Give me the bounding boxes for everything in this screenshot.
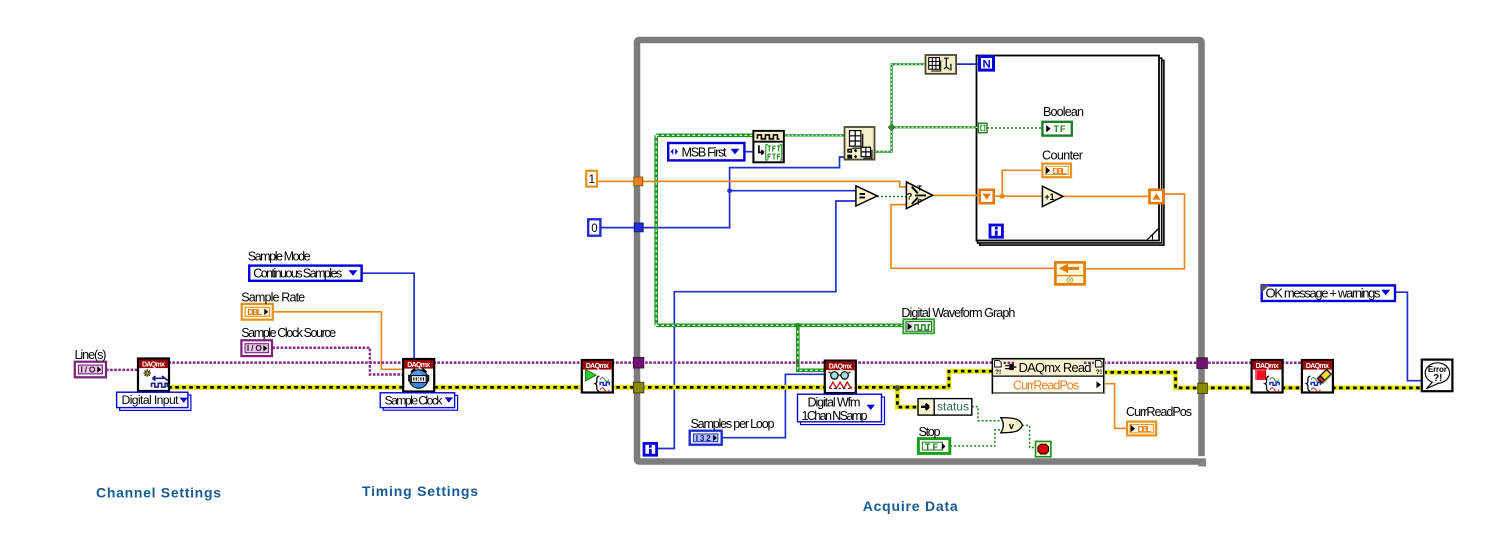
dropdown Digital Input	[117, 392, 191, 410]
dropdown Sample Clock	[380, 393, 457, 410]
svg-text:TF: TF	[1054, 124, 1066, 134]
svg-text:Digital Input: Digital Input	[122, 393, 180, 407]
wire while-i to equals lower input	[658, 201, 856, 449]
wire I32 to DAQmx read	[722, 374, 826, 437]
tunnel purple left	[633, 357, 643, 368]
svg-text:?: ?	[907, 191, 913, 202]
CurrReadPos DBL indicator	[1127, 422, 1156, 436]
wire equals to select	[877, 196, 906, 198]
page curl on for loop	[1148, 229, 1159, 240]
svg-text:DBL: DBL	[247, 307, 262, 317]
wire tunnel to Boolean TF	[987, 127, 1042, 129]
tunnel olive right	[1198, 383, 1208, 393]
page glyph left	[995, 361, 1002, 376]
wire sample clock source	[272, 348, 404, 375]
digital to boolean array icon	[753, 131, 783, 162]
wire sample mode blue	[362, 273, 415, 360]
svg-text:Digital Waveform Graph: Digital Waveform Graph	[901, 306, 1015, 320]
svg-text:Sample Rate: Sample Rate	[241, 291, 305, 305]
dropdown MSB First	[668, 143, 744, 160]
DAQmx Stop node	[1252, 360, 1283, 393]
loop condition stop sign	[1036, 441, 1051, 456]
terminal Sample Clock Source I/O	[241, 340, 272, 356]
junction 0-wire	[727, 188, 732, 193]
plug glyph	[1005, 364, 1016, 370]
svg-text:I32: I32	[696, 433, 711, 443]
wire diamond to for tunnel	[892, 126, 979, 128]
svg-text:DAQmx Read: DAQmx Read	[1019, 360, 1092, 375]
wire task main 3	[612, 361, 640, 364]
wire status to OR	[972, 407, 1001, 421]
svg-text:Sample Mode: Sample Mode	[248, 250, 311, 264]
svg-text:0: 0	[591, 223, 597, 235]
wire task main inside loop	[641, 361, 992, 364]
green dotted boolean wires	[877, 128, 1042, 448]
wire 0-constant to equals	[601, 191, 856, 228]
wire CurrReadPos to DBL	[1105, 384, 1128, 429]
purple dashes inside property node	[1004, 362, 1095, 364]
svg-text:Line(s): Line(s)	[75, 348, 107, 362]
junction diamond	[888, 124, 895, 131]
purple task wires	[106, 348, 1302, 375]
wire junction down to read vi	[798, 325, 826, 370]
svg-text:+1: +1	[1044, 192, 1054, 202]
svg-text:Counter: Counter	[1042, 149, 1083, 163]
unbundle status node	[918, 399, 972, 416]
junction counter wire	[1000, 194, 1005, 199]
green thick digital waveform wire	[656, 135, 904, 370]
wire right SR down to feedback node	[1085, 194, 1185, 269]
tunnel boolean array []	[978, 123, 987, 133]
dropdown Digital Wfm 1Chan NSamp	[798, 394, 885, 424]
svg-text:Timing Settings: Timing Settings	[362, 483, 478, 499]
wire branch to counter	[1002, 170, 1042, 196]
DAQmx Read property node	[992, 359, 1104, 394]
dropdown Continuous Samples	[249, 266, 361, 281]
junction error wire	[895, 385, 901, 391]
DAQmx Read VI node	[825, 361, 856, 394]
tunnel blue (0)	[634, 223, 643, 232]
DAQmx Clear node	[1302, 360, 1333, 393]
svg-text:I/O: I/O	[81, 365, 96, 375]
DAQmx Timing node	[403, 359, 434, 392]
wire task after property node	[1104, 362, 1201, 365]
svg-text:v: v	[1009, 421, 1015, 431]
DAQmx Start node	[582, 360, 613, 393]
terminal Samples per Loop I32	[690, 431, 722, 445]
page glyph right	[1095, 361, 1102, 376]
wire task to stop	[1204, 362, 1252, 365]
constant 1	[586, 171, 597, 187]
svg-text:status: status	[937, 399, 969, 413]
section headings	[96, 483, 958, 514]
boolean array to digital icon	[845, 127, 875, 160]
for loop i terminal	[990, 225, 1002, 237]
svg-text:?!: ?!	[1096, 369, 1102, 376]
array size icon	[926, 55, 957, 74]
wire lines to create channel	[106, 369, 139, 372]
svg-text:1Chan NSamp: 1Chan NSamp	[802, 409, 868, 423]
wire MSB dropdown to icon	[745, 151, 754, 153]
shift register right	[1150, 190, 1164, 203]
DAQmx Create Virtual Channel node	[138, 359, 169, 392]
wire stop TF to OR	[950, 430, 1001, 446]
wire 1-constant to select t	[597, 181, 906, 187]
yellow error wires	[168, 371, 1422, 407]
wire sample rate	[273, 312, 404, 370]
orange wires	[273, 170, 1185, 428]
wire task main 1	[168, 361, 404, 364]
svg-text:I/O: I/O	[247, 343, 262, 353]
svg-text:Sample Clock Source: Sample Clock Source	[241, 326, 336, 340]
N terminal	[980, 57, 994, 71]
Stop TF control	[918, 439, 949, 454]
junction digital wfm	[795, 323, 800, 328]
wire feedback to select f	[891, 205, 1055, 269]
wire OK message to error handler	[1395, 292, 1422, 381]
while loop i terminal	[644, 443, 657, 455]
Counter DBL indicator	[1042, 164, 1071, 178]
wire task main 2	[433, 361, 582, 364]
tunnel purple right	[1197, 358, 1208, 369]
feedback node	[1055, 262, 1084, 284]
svg-text:TF: TF	[925, 442, 939, 452]
svg-text:Continuous Samples: Continuous Samples	[253, 267, 342, 281]
svg-text:OK message + warnings: OK message + warnings	[1266, 286, 1382, 301]
Simple Error Handler node	[1422, 360, 1453, 392]
svg-text:Sample Clock: Sample Clock	[385, 393, 444, 407]
while loop border	[637, 40, 1206, 466]
tunnel orange (1)	[634, 177, 643, 186]
wire to digital-to-bool icon	[656, 134, 753, 138]
wire +1 to right shift register	[1063, 195, 1150, 197]
Boolean TF indicator	[1042, 122, 1071, 136]
wire task stop to clear	[1282, 362, 1303, 365]
wire to graph	[656, 323, 904, 327]
svg-text:CurrReadPos: CurrReadPos	[1013, 378, 1079, 392]
increment +1 node	[1042, 186, 1063, 206]
svg-text:Acquire Data: Acquire Data	[863, 498, 958, 514]
svg-text:N: N	[982, 58, 990, 70]
svg-text:Digital Wfm: Digital Wfm	[808, 396, 861, 410]
tunnel olive left	[633, 382, 643, 393]
constant 0	[588, 219, 600, 235]
wire digital data to diamond	[875, 64, 926, 152]
svg-text:?!: ?!	[995, 369, 1001, 376]
svg-text:Boolean: Boolean	[1043, 105, 1084, 119]
Digital Waveform Graph indicator	[903, 319, 934, 333]
wire shift reg to +1	[994, 195, 1043, 197]
wire 0 branch to digital-build icon	[730, 157, 845, 191]
wire OR to loop condition	[1022, 425, 1036, 447]
shift register left	[980, 190, 994, 203]
green medium boolean array wire	[784, 64, 980, 152]
svg-text:1: 1	[589, 174, 595, 186]
svg-text:CurrReadPos: CurrReadPos	[1126, 405, 1192, 419]
wire select to left shift register	[932, 194, 980, 196]
svg-text:?!: ?!	[1433, 373, 1442, 384]
svg-text:MSB First: MSB First	[682, 145, 728, 159]
svg-text:DBL: DBL	[1053, 166, 1067, 176]
svg-text:Channel Settings: Channel Settings	[96, 485, 221, 501]
for loop frame	[977, 56, 1164, 246]
dropdown OK message + warnings	[1261, 285, 1395, 301]
OR node	[1001, 418, 1023, 433]
terminal Sample Rate DBL	[242, 304, 273, 320]
svg-text:Samples per Loop: Samples per Loop	[691, 417, 775, 431]
svg-text:Stop: Stop	[919, 425, 941, 439]
equals node	[856, 186, 877, 206]
svg-text:DBL: DBL	[1138, 424, 1152, 434]
select node	[906, 182, 932, 209]
terminal Line(s) I/O	[75, 362, 106, 378]
wire array size to N	[956, 63, 979, 65]
wire bool array between icons	[784, 134, 845, 136]
wire digital waveform vertical	[654, 135, 658, 325]
